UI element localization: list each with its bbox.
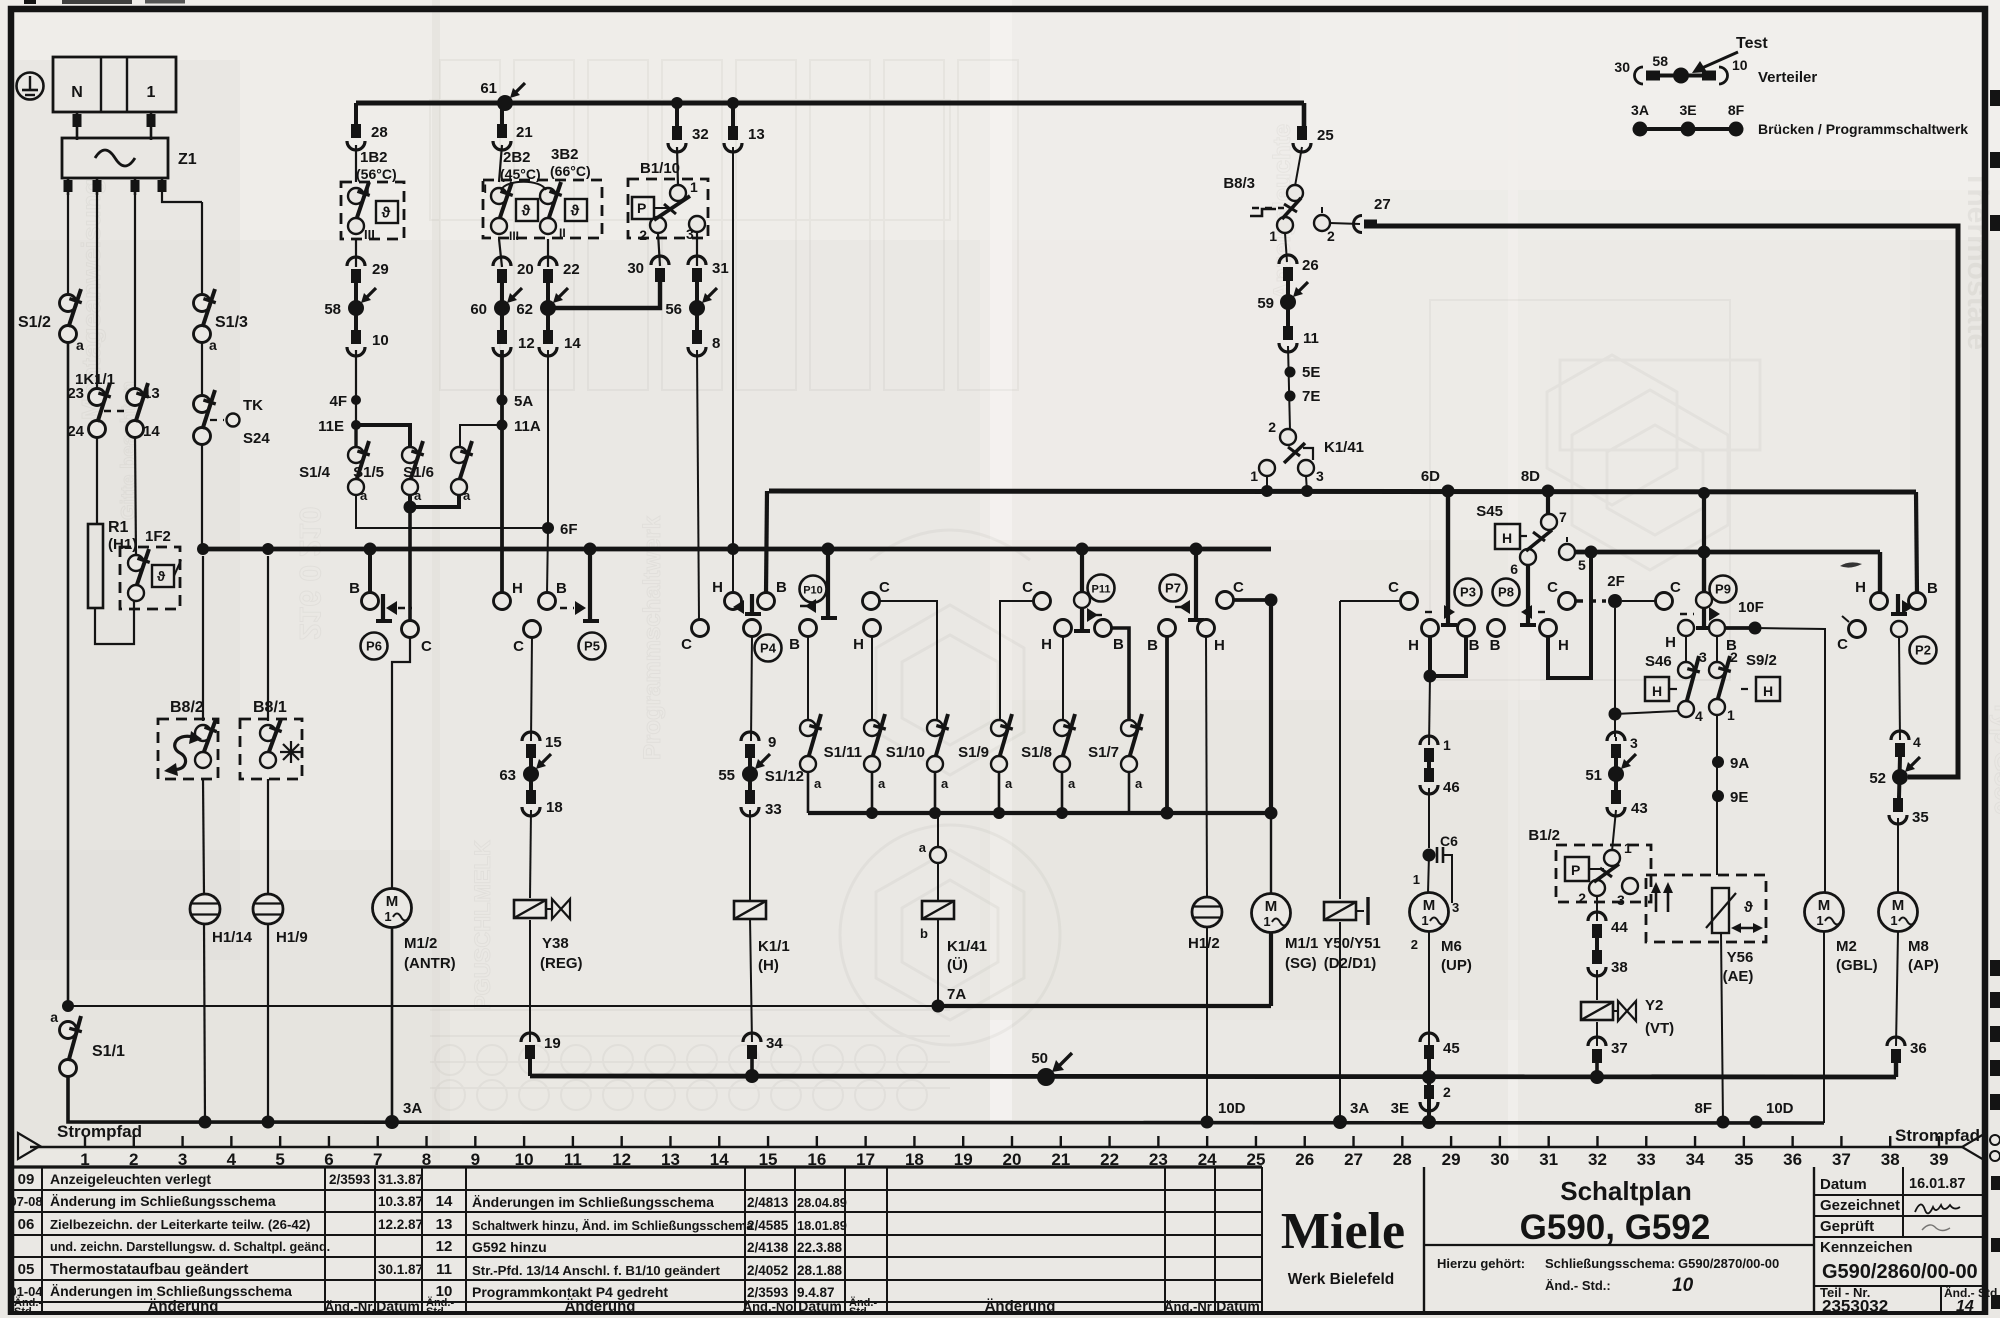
wire 5bus down P9: [1702, 552, 1706, 593]
svg-text:52: 52: [1869, 770, 1886, 787]
svg-text:3: 3: [686, 226, 694, 242]
svg-text:12.2.87: 12.2.87: [378, 1217, 423, 1232]
svg-text:ϑ: ϑ: [382, 205, 391, 222]
svg-text:32: 32: [1588, 1150, 1607, 1169]
svg-text:2: 2: [639, 227, 647, 243]
svg-text:1: 1: [1624, 840, 1632, 856]
svg-text:50: 50: [1031, 1050, 1048, 1067]
svg-text:C: C: [513, 638, 524, 655]
svg-text:S46: S46: [1645, 653, 1672, 670]
connector 38: [1588, 938, 1628, 976]
svg-text:S1/11: S1/11: [824, 744, 862, 761]
program contact P11: [1022, 543, 1124, 654]
wires K1/41 to bus: [1267, 476, 1307, 492]
svg-text:S1/6: S1/6: [403, 464, 434, 481]
wire 45 to bus2: [1427, 1059, 1431, 1122]
svg-text:58: 58: [324, 301, 341, 318]
solenoid Y38: [514, 899, 583, 972]
svg-text:3E: 3E: [1391, 1100, 1409, 1117]
wire P3 C to Y50 col: [1340, 600, 1401, 602]
connector 22: [539, 257, 580, 283]
svg-text:a: a: [814, 776, 822, 791]
svg-text:S45: S45: [1476, 503, 1503, 520]
connector 3: [1607, 732, 1638, 758]
wire B1/10-3 to 31: [696, 232, 698, 266]
bottom border: [10, 1311, 1985, 1315]
node 37 bus dot: [1590, 1070, 1604, 1084]
svg-text:2/4813: 2/4813: [747, 1195, 789, 1210]
svg-text:1: 1: [1269, 228, 1277, 244]
wire 3B2 to 22: [547, 239, 549, 267]
bus 7A line: [938, 933, 1271, 1006]
wire S1/4a to 6F: [356, 494, 543, 528]
svg-text:2F: 2F: [1607, 573, 1625, 590]
svg-text:(VT): (VT): [1645, 1020, 1674, 1037]
connector 36: [1887, 1037, 1927, 1063]
svg-text:Str.-Pfd. 13/14 Anschl. f. B1/: Str.-Pfd. 13/14 Anschl. f. B1/10 geänder…: [472, 1263, 721, 1278]
svg-text:C: C: [1233, 579, 1244, 596]
svg-text:a: a: [919, 840, 927, 855]
wire bus to 13: [727, 97, 739, 126]
connector 8: [688, 330, 720, 356]
svg-text:10: 10: [1672, 1275, 1694, 1296]
svg-text:11: 11: [436, 1261, 452, 1278]
wire bus to 28: [354, 103, 358, 124]
svg-text:9: 9: [768, 734, 776, 751]
wire B8/2 to lamp: [203, 779, 204, 895]
svg-text:S1/9: S1/9: [958, 744, 989, 761]
connector 18: [522, 790, 563, 816]
wire Y2 to 37: [1596, 1022, 1598, 1046]
svg-text:28: 28: [371, 124, 388, 141]
node dot B8/2 bus: [197, 543, 209, 555]
svg-text:TK: TK: [243, 397, 263, 414]
svg-text:C6: C6: [1440, 833, 1458, 849]
svg-text:(45°C): (45°C): [500, 166, 541, 182]
collector line 813: [808, 807, 1278, 820]
svg-text:2/4138: 2/4138: [747, 1240, 789, 1255]
svg-text:(H1): (H1): [108, 536, 137, 553]
terminal block N-1: [53, 57, 176, 140]
thermostat 2B2 45C and 3B2 66C: [483, 146, 602, 243]
svg-text:B: B: [789, 636, 800, 653]
wire 9-55-33: [748, 758, 752, 790]
resistor R1 (H1): [88, 519, 137, 608]
svg-text:(ANTR): (ANTR): [404, 955, 456, 972]
connector 20: [493, 257, 534, 283]
svg-text:11E: 11E: [318, 418, 344, 435]
svg-text:1: 1: [1421, 913, 1428, 928]
svg-text:5A: 5A: [514, 393, 533, 410]
node 10F: [1725, 599, 1764, 635]
svg-text:a: a: [76, 337, 84, 353]
svg-text:M1/2: M1/2: [404, 935, 437, 952]
wire a-line to P6 C: [408, 507, 412, 622]
svg-text:33: 33: [765, 801, 782, 818]
svg-text:1: 1: [147, 84, 156, 101]
svg-text:6F: 6F: [560, 521, 578, 538]
svg-text:B8/3: B8/3: [1223, 175, 1255, 192]
node 8F: [1694, 1100, 1729, 1129]
wire S1/5 S1/6 a-link: [404, 494, 460, 514]
wire 29-58-10: [354, 283, 358, 330]
switch S1/6: [403, 441, 473, 503]
svg-text:2: 2: [1411, 937, 1418, 952]
wire S24 to bus: [201, 443, 203, 549]
svg-text:Programmschaltwerk: Programmschaltwerk: [639, 515, 666, 760]
svg-text:30: 30: [1490, 1150, 1509, 1169]
node 61: [480, 80, 525, 111]
title block Schaltplan G590 G592: [1424, 1176, 1814, 1296]
wire 1B2 to 29: [355, 239, 357, 267]
svg-text:3A: 3A: [1350, 1100, 1369, 1117]
wire S1/8 bottom stub: [1061, 771, 1064, 813]
svg-text:56: 56: [665, 301, 682, 318]
switch S1/12: [765, 714, 822, 791]
svg-text:B1/2: B1/2: [1528, 827, 1560, 844]
svg-text:Test: Test: [1736, 35, 1768, 52]
node 34 bus dot: [745, 1069, 759, 1083]
svg-text:7: 7: [1559, 509, 1567, 525]
svg-text:14: 14: [436, 1193, 453, 1210]
contact K1/41 top: [1250, 419, 1364, 484]
svg-text:7A: 7A: [947, 986, 966, 1003]
wire S1/3 to TK: [201, 342, 203, 396]
svg-text:11A: 11A: [514, 418, 541, 435]
legend Verteiler: [1614, 53, 1817, 86]
svg-text:B: B: [776, 579, 787, 596]
svg-text:5E: 5E: [1302, 364, 1320, 381]
node 6D: [1421, 468, 1455, 498]
svg-text:9A: 9A: [1730, 755, 1749, 772]
wire 31-56-8: [695, 282, 699, 330]
node 55: [718, 754, 770, 784]
svg-text:1: 1: [1413, 872, 1420, 887]
node 4F: [329, 393, 361, 410]
svg-text:10D: 10D: [1766, 1100, 1794, 1117]
wire 2F col to 3: [1615, 737, 1617, 741]
svg-text:P: P: [637, 200, 646, 216]
svg-text:Gezeichnet: Gezeichnet: [1820, 1197, 1900, 1214]
svg-text:3A: 3A: [403, 1100, 422, 1117]
svg-text:11: 11: [1303, 330, 1319, 347]
svg-text:(REG): (REG): [540, 955, 583, 972]
connector 29: [347, 257, 389, 283]
svg-text:21: 21: [516, 124, 533, 141]
connector 33: [741, 790, 782, 818]
node 45 bus dot: [1422, 1070, 1436, 1084]
svg-text:Änderung im Schließungsschema: Änderung im Schließungsschema: [50, 1193, 276, 1209]
wire P11 H to S1/8: [1062, 635, 1064, 721]
svg-text:8F: 8F: [1728, 102, 1745, 118]
node 56: [665, 288, 717, 318]
svg-text:M8: M8: [1908, 938, 1929, 955]
program contact P5: [494, 543, 606, 660]
svg-text:2: 2: [1443, 1084, 1451, 1100]
wire Y38 to 19: [529, 920, 531, 1042]
wire 43 to B1/2: [1612, 810, 1616, 851]
svg-text:2: 2: [1578, 890, 1586, 906]
svg-text:27: 27: [1374, 196, 1391, 213]
connector 43: [1607, 790, 1648, 817]
wire B8/2 column: [202, 556, 204, 721]
svg-text:10: 10: [372, 332, 389, 349]
svg-text:H: H: [1408, 637, 1419, 654]
circle 2 and wire to 27: [1314, 207, 1360, 244]
svg-text:P10: P10: [803, 585, 823, 597]
svg-text:PGUSCHLMELK: PGUSCHLMELK: [470, 840, 495, 1010]
wire 14 to 6F to P5 B: [547, 350, 548, 594]
wire 21 to 2B2: [499, 145, 502, 182]
svg-text:a: a: [360, 488, 368, 503]
connector 4: [1891, 731, 1921, 757]
program contact P6: [349, 543, 432, 660]
svg-text:1: 1: [1443, 737, 1451, 753]
svg-text:61: 61: [480, 80, 497, 97]
switch S46: [1645, 636, 1707, 724]
svg-text:Thermostate: Thermostate: [1961, 170, 1994, 350]
node a S1/1: [50, 1000, 74, 1025]
svg-text:B: B: [556, 580, 567, 597]
svg-text:37: 37: [1611, 1040, 1628, 1057]
svg-text:Verteiler: Verteiler: [1758, 69, 1817, 86]
wire 34 to bus: [750, 1059, 754, 1075]
svg-text:S1/4: S1/4: [299, 464, 331, 481]
svg-text:Schließungsschema:: Schließungsschema:: [1545, 1256, 1675, 1271]
svg-text:09: 09: [18, 1171, 35, 1188]
svg-text:1: 1: [690, 179, 698, 195]
svg-text:I: I: [484, 182, 487, 196]
svg-text:18: 18: [546, 799, 563, 816]
svg-text:a: a: [941, 776, 949, 791]
svg-text:M1/1: M1/1: [1285, 935, 1318, 952]
wire S1/7 bottom stub: [1128, 771, 1131, 813]
svg-text:27: 27: [1344, 1150, 1363, 1169]
svg-text:8F: 8F: [1694, 1100, 1712, 1117]
svg-text:16.01.87: 16.01.87: [1909, 1176, 1965, 1192]
wire 62 to 30 link: [548, 282, 660, 308]
svg-text:a: a: [463, 488, 471, 503]
ink smudge: [1840, 562, 1862, 567]
motor M8: [1879, 893, 1939, 975]
svg-text:B: B: [349, 580, 360, 597]
svg-text:Werk Bielefeld: Werk Bielefeld: [1288, 1271, 1395, 1288]
edge marks right: [1990, 90, 2000, 1309]
svg-text:33: 33: [1637, 1150, 1656, 1169]
svg-text:Y50/Y51: Y50/Y51: [1323, 935, 1381, 952]
svg-text:C: C: [1388, 579, 1399, 596]
svg-text:Schaltplan: Schaltplan: [1560, 1176, 1691, 1206]
connector 19: [521, 1033, 561, 1059]
svg-text:38: 38: [1611, 959, 1628, 976]
wire M2 to bottom bus: [1823, 932, 1825, 1123]
connector 45: [1420, 1033, 1460, 1059]
svg-text:b: b: [920, 926, 928, 941]
svg-text:III: III: [364, 227, 375, 242]
svg-text:a: a: [209, 337, 217, 353]
contact 1K1/1: [67, 371, 160, 440]
svg-text:(56°C): (56°C): [356, 166, 397, 182]
svg-text:H1/14: H1/14: [212, 929, 253, 946]
svg-text:(GBL): (GBL): [1836, 957, 1878, 974]
Strompfad label left: [18, 1122, 142, 1159]
node dot B8/1 bus: [262, 543, 274, 555]
node 9A: [1712, 755, 1749, 772]
wire B1/10-2 to 30: [658, 233, 660, 266]
wire 8 down to P4 C: [697, 350, 699, 620]
svg-text:15: 15: [545, 734, 562, 751]
svg-text:G590, G592: G590, G592: [1520, 1208, 1711, 1247]
wire 11E to S1/4: [354, 425, 357, 447]
program contact P8: [1488, 564, 1569, 654]
wire 3-51-43: [1614, 758, 1618, 790]
svg-text:H: H: [1855, 579, 1866, 596]
svg-text:62: 62: [516, 301, 533, 318]
wire 32 to B1/10: [677, 147, 678, 186]
svg-text:B8/2: B8/2: [170, 699, 204, 716]
svg-text:4: 4: [1695, 708, 1703, 724]
connector 46: [1420, 762, 1460, 796]
svg-text:46: 46: [1443, 779, 1460, 796]
switch S45: [1476, 491, 1567, 577]
solenoid Y50/Y51: [1323, 601, 1381, 972]
svg-text:P3: P3: [1460, 585, 1476, 600]
solenoid Y2: [1581, 997, 1674, 1037]
wire 19 to bus: [528, 1059, 532, 1076]
wire S1/11 bottom stub: [871, 771, 874, 813]
svg-text:Zielbezeichn. der Leiterkarte: Zielbezeichn. der Leiterkarte teilw. (26…: [50, 1217, 310, 1232]
wire P7 B to collector: [1165, 635, 1169, 813]
svg-text:22.3.88: 22.3.88: [797, 1240, 843, 1255]
svg-text:P4: P4: [760, 641, 777, 656]
wire 22-62-14: [546, 283, 550, 330]
wire P2 to 4: [1899, 636, 1900, 740]
svg-text:3B2: 3B2: [551, 146, 579, 163]
bus B 27 line: [1377, 226, 1958, 777]
svg-text:63: 63: [499, 767, 516, 784]
svg-text:3E: 3E: [1679, 102, 1696, 118]
svg-text:Y38: Y38: [542, 935, 569, 952]
wire Y56 to 8F: [1721, 933, 1723, 1122]
node 50: [1031, 1050, 1072, 1086]
svg-text:III: III: [509, 229, 519, 243]
connector 2 bottom: [1420, 1084, 1451, 1111]
node 5A: [497, 393, 534, 410]
wire 26-59-11: [1286, 281, 1290, 326]
svg-text:C: C: [1837, 636, 1848, 653]
svg-text:B1/10: B1/10: [640, 160, 680, 177]
switch S1/1: [60, 1016, 126, 1077]
program contact 2F row: [1547, 573, 1681, 610]
wire 2B2 to 20: [499, 239, 502, 267]
wire 33 to K1/1: [749, 810, 751, 901]
bus C distribution 549: [201, 547, 1271, 552]
switch S1/8: [1021, 714, 1076, 791]
program contact P9: [1665, 487, 1737, 654]
svg-text:1: 1: [1250, 468, 1258, 484]
svg-text:P7: P7: [1165, 581, 1181, 596]
node dot 13 bus: [727, 543, 739, 555]
svg-text:05: 05: [18, 1261, 35, 1278]
svg-text:R1: R1: [108, 519, 129, 536]
bus K1/41 491: [769, 491, 1916, 492]
svg-text:29: 29: [372, 261, 389, 278]
svg-text:G592 hinzu: G592 hinzu: [472, 1239, 547, 1255]
motor M1/1: [1252, 594, 1319, 973]
svg-text:23: 23: [67, 385, 84, 402]
connector 30: [627, 256, 669, 282]
svg-text:a: a: [1135, 776, 1143, 791]
connector 11 right: [1279, 326, 1319, 352]
relay coil K1/1: [734, 901, 790, 974]
svg-text:C: C: [879, 579, 890, 596]
connector 37: [1588, 1037, 1628, 1063]
svg-text:26: 26: [1295, 1150, 1314, 1169]
svg-text:B: B: [1113, 636, 1124, 653]
wire 35 to M8: [1897, 818, 1899, 893]
svg-text:P: P: [1571, 862, 1580, 878]
svg-text:M6: M6: [1441, 938, 1462, 955]
title block right info: [1814, 1167, 2000, 1316]
svg-text:B: B: [1469, 637, 1480, 654]
switch S1/10: [886, 714, 949, 791]
svg-text:36: 36: [1910, 1040, 1927, 1057]
svg-text:K1/41: K1/41: [947, 938, 987, 955]
svg-text:10D: 10D: [1218, 1100, 1246, 1117]
svg-text:3: 3: [1452, 900, 1459, 915]
svg-text:10F: 10F: [1738, 599, 1764, 616]
wire K1/41 to 7A: [937, 918, 939, 1006]
svg-text:28.04.89: 28.04.89: [797, 1195, 847, 1210]
connector 32: [668, 126, 709, 152]
svg-text:28: 28: [1393, 1150, 1412, 1169]
svg-text:Strompfad: Strompfad: [57, 1122, 142, 1141]
svg-text:H: H: [1041, 636, 1052, 653]
switch S1/2: [18, 289, 84, 353]
node 6F: [542, 521, 578, 538]
svg-text:Geprüft: Geprüft: [1820, 1218, 1874, 1235]
svg-text:7E: 7E: [1302, 388, 1320, 405]
wire 491 right riser to P2 B: [1916, 492, 1917, 594]
wire 10F to M2: [1755, 628, 1825, 893]
node dot 5bus P8loop: [1585, 546, 1598, 559]
svg-text:P2: P2: [1915, 643, 1931, 658]
wire 38 to Y2: [1596, 970, 1598, 1000]
wire K1/1 to 34: [750, 918, 752, 1042]
node 7A: [932, 986, 967, 1013]
svg-text:45: 45: [1443, 1040, 1460, 1057]
svg-text:M: M: [1818, 897, 1831, 914]
svg-text:39: 39: [1930, 1150, 1949, 1169]
relay coil K1/41: [920, 901, 987, 974]
svg-text:9E: 9E: [1730, 789, 1748, 806]
svg-text:1: 1: [384, 909, 391, 924]
switch S1/4: [299, 441, 370, 503]
connector 1 M6: [1420, 736, 1451, 762]
wire P11 C to S1/9: [1000, 601, 1034, 721]
wire a-line 1006: [68, 1005, 938, 1007]
svg-text:14: 14: [564, 335, 581, 352]
wire lamps to bottom bus: [199, 924, 423, 1129]
svg-text:S1/8: S1/8: [1021, 744, 1052, 761]
connector 28: [347, 124, 388, 150]
svg-text:216 0 210: 216 0 210: [293, 507, 326, 640]
lamp H1/9: [253, 894, 308, 946]
connector 35: [1889, 798, 1929, 826]
svg-text:H: H: [512, 580, 523, 597]
svg-text:37: 37: [1832, 1150, 1851, 1169]
svg-text:H: H: [1763, 683, 1773, 699]
